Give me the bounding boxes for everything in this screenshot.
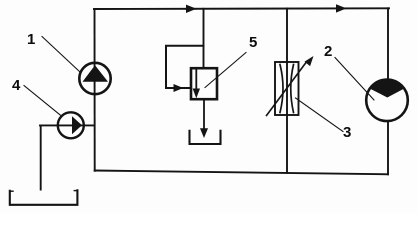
pilot arrowhead [174,84,184,92]
wire motor vertical line (top) [387,8,389,80]
flow arrow on top bus (left) [185,8,196,10]
svg-text:1: 1 [27,31,35,48]
auxiliary pump 4 triangle [72,116,82,134]
wire component 4 horizontal line [40,124,95,126]
wire drain to tank T2 [203,99,205,129]
leader line for label 4 [24,86,62,117]
throttle valve 3 body [275,62,299,115]
leader line for label 3 [296,98,344,132]
flow arrow on top bus (right) [336,4,347,12]
wire drop to relief valve 5 [203,9,205,69]
leader line for label 5 [205,53,246,88]
svg-text:3: 3 [343,124,351,141]
pump U1 triangle [83,65,109,82]
drain arrowhead [200,128,208,138]
wire throttle vertical line [286,8,288,172]
relief valve internal flow arrow [195,70,197,90]
motor U2 filled wedge [370,79,405,97]
svg-text:5: 5 [249,34,257,51]
relief valve U5 body [191,68,217,99]
leader line for label 1 [42,37,80,73]
wire bottom bus [95,171,388,175]
wire top bus [94,7,389,10]
wire motor vertical line (bottom) [387,121,389,174]
pump U1 circle (1) [79,63,110,94]
pilot line of relief valve [166,46,204,88]
auxiliary pump 4 circle [58,112,84,138]
tank T1 (bottom left reservoir) [10,190,78,205]
throttle venturi right curve [291,65,294,113]
throttle venturi left curve [280,65,283,113]
svg-text:4: 4 [12,77,21,94]
wire pump 1 vertical line [94,9,96,171]
motor U2 circle (2) [366,80,408,122]
tank T2 (drain reservoir) [190,131,221,144]
throttle adjustment arrow [267,63,307,116]
leader line for label 2 [335,58,374,101]
wire suction pipe to tank [40,125,42,189]
svg-text:2: 2 [324,43,332,60]
